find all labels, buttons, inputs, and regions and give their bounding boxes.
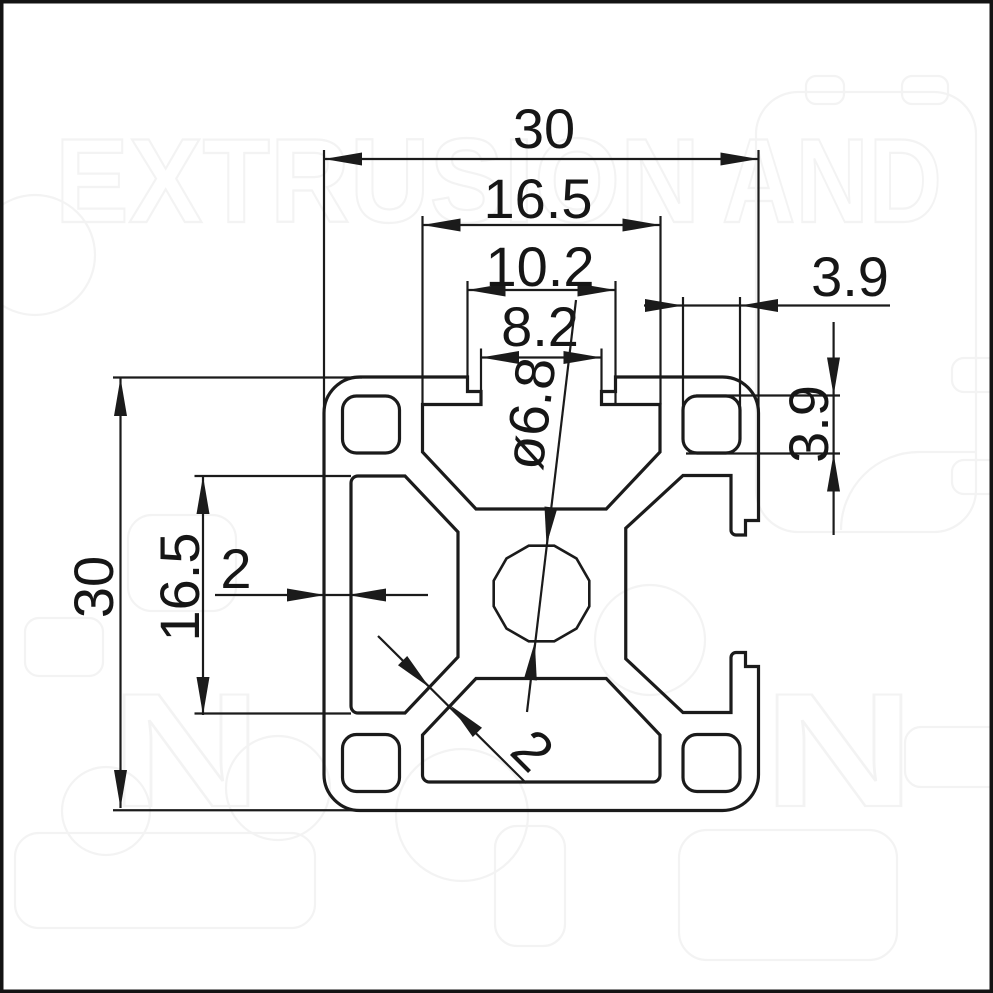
dimension 10.2 top bbox=[468, 235, 616, 404]
svg-text:N: N bbox=[763, 659, 915, 840]
dimension o6.8 center bore leader bbox=[492, 300, 576, 712]
watermark letter N lower-left bbox=[110, 659, 262, 840]
dimension 30 left bbox=[62, 378, 430, 811]
svg-text:2: 2 bbox=[220, 537, 251, 600]
dimension 3.9 horizontal corner hole width bbox=[644, 245, 890, 412]
corner hole bottom-left bbox=[343, 735, 400, 792]
corner hole top-left bbox=[343, 396, 400, 453]
watermark text EXTRUSION bbox=[55, 114, 700, 248]
center bore o6.8 bbox=[494, 546, 590, 642]
dimension 16.5 left bbox=[148, 476, 351, 715]
svg-text:16.5: 16.5 bbox=[484, 167, 593, 230]
svg-text:3.9: 3.9 bbox=[777, 385, 840, 463]
svg-text:10.2: 10.2 bbox=[486, 235, 595, 298]
dimension 16.5 top bbox=[423, 167, 661, 405]
svg-text:3.9: 3.9 bbox=[811, 245, 889, 308]
svg-text:EXTRUSION: EXTRUSION bbox=[55, 114, 700, 248]
corner hole top-right bbox=[683, 396, 740, 453]
profile outer outline with top slot and right slot bbox=[324, 377, 759, 811]
svg-text:16.5: 16.5 bbox=[148, 533, 211, 642]
svg-text:8.2: 8.2 bbox=[501, 295, 579, 358]
dimension 8.2 top slot opening bbox=[481, 295, 602, 392]
dimension 30 top bbox=[324, 97, 759, 480]
bottom closed cavity bbox=[423, 679, 661, 783]
watermark text AND bbox=[722, 114, 942, 248]
left closed cavity bbox=[351, 476, 458, 713]
dimension 3.9 vertical corner hole height bbox=[686, 322, 840, 535]
svg-text:30: 30 bbox=[513, 97, 575, 160]
corner hole bottom-right bbox=[683, 735, 740, 792]
watermark letter N lower-right bbox=[763, 659, 915, 840]
svg-text:30: 30 bbox=[62, 556, 125, 618]
svg-text:N: N bbox=[110, 659, 262, 840]
dimension 2 wall thickness left bbox=[215, 537, 428, 602]
dimension 2 diagonal rib thickness bbox=[378, 636, 566, 784]
